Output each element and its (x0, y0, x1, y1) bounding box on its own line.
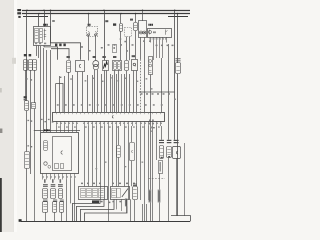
wire bracket b4 (85, 199, 128, 221)
wire x121.8 down (121, 74, 123, 112)
wire ecu x149 down (148, 126, 150, 200)
wire feed right x177.5 (177, 14, 179, 64)
node label 45 (105, 20, 108, 22)
wire feed right x174.7 (174, 10, 176, 140)
vertical label TC3 right (158, 190, 161, 203)
gauge dial a (140, 31, 143, 34)
wire x101.2 down (101, 74, 103, 112)
wire M1 pin b down (97, 70, 99, 112)
wire distributor down (150, 75, 152, 222)
instrument cluster box (139, 21, 147, 38)
page edge crease line (13, 0, 15, 232)
inline connector box mid top (113, 45, 117, 53)
wire relay 84 terminal a down (88, 36, 90, 61)
wire ecu x88 to fuse box (88, 126, 90, 186)
connector bracket C6 (131, 126, 133, 142)
coil cap marks c (174, 140, 179, 141)
relay small box mid-left (32, 103, 36, 109)
wire ecu x141 down (140, 126, 142, 200)
supply rail 15 (22, 13, 190, 15)
wire feed x104 (104, 10, 106, 60)
connector pill P1 label (24, 54, 27, 56)
lion emblem box (103, 61, 109, 71)
scan smudge left margin (12, 58, 16, 64)
sensor pill S3 (133, 187, 138, 200)
sensor box 9 label (132, 55, 135, 57)
lion emblem label (102, 56, 105, 58)
wire x47 down (46, 50, 48, 132)
wire x135 bottom stub (134, 200, 136, 222)
injector cap a1 (43, 184, 48, 185)
wire feed x39 into switch 830 (38, 14, 40, 27)
wire x159.9 bottom (159, 173, 161, 221)
wire ecu x118.7 pill (118, 126, 120, 145)
wire 831 pin x156.6 down (156, 43, 158, 59)
connector pill P6 (125, 61, 129, 71)
wire 831 pin x153.5 down (153, 43, 155, 61)
throttle potentiometer lever (122, 189, 128, 198)
wire double connector pin b down (118, 70, 120, 112)
wire ecu x136 down (136, 126, 138, 186)
connector pill P1 (24, 60, 28, 71)
wire x92 down (92, 75, 94, 112)
label box below coil A (159, 161, 163, 174)
ignition switch 830 internal contact bar B (40, 29, 43, 43)
wire ecu x108 down (108, 126, 110, 221)
831 internal lamp symbol (148, 31, 151, 34)
wire ecu x128 down (128, 126, 130, 199)
wire ecu x100 to fuse box (100, 126, 102, 199)
wire 831 pin x162.9 down (162, 43, 164, 59)
wire ecu x145 down (144, 126, 146, 221)
extra specks near relay wires (81, 46, 83, 48)
wire dashed lambda x140.6 (140, 59, 142, 112)
wire sensor pill down (177, 74, 179, 216)
injector labels row (44, 179, 46, 183)
connector pill P7 (25, 101, 29, 111)
wire P1 down (25, 70, 27, 101)
fuse F1 label (113, 23, 116, 25)
rail label 30 (17, 9, 21, 11)
specks under boxes (101, 201, 103, 203)
wire fuse F1 down (120, 31, 122, 60)
labels inside fuse boxes bottom (112, 201, 114, 203)
ignition switch 830 pin labels (35, 43, 37, 45)
coil pill B (167, 147, 172, 158)
wire idle valve down (176, 158, 178, 215)
wire ecu x92 to fuse box (92, 126, 94, 186)
wire 8300 x71 to bottom (70, 180, 72, 204)
wire relay mid pin a down (126, 37, 128, 61)
wire label tick x30 (30, 120, 32, 121)
ECU bottom second label row (58, 126, 60, 127)
double connector label (113, 56, 116, 58)
injector cap a2 (51, 184, 56, 185)
wire injector b1 stub (45, 212, 47, 221)
scan tick mark left edge (0, 129, 2, 134)
distributor pillar (149, 57, 153, 75)
connector pill P3 (33, 60, 37, 71)
injector cap b2 (53, 199, 57, 202)
fuse cell 2 (87, 189, 92, 198)
wire coil B down (168, 158, 170, 199)
tick labels on feed wires (41, 119, 43, 120)
pill P4 label (67, 56, 70, 58)
sensor pill S3 cap (133, 183, 137, 186)
vertical label TC3 left (148, 190, 151, 203)
wire C5 pin a down (77, 72, 79, 112)
coil pill nubs (161, 157, 163, 159)
wire 8300 x67 to bottom (66, 180, 68, 222)
wire x161 down (161, 58, 163, 112)
coil pill A (160, 146, 164, 159)
wire injector b2 stub (54, 212, 56, 221)
relay 84 dashed housing (87, 27, 98, 37)
wire x34.5 to bottom (34, 130, 36, 221)
earth rail bottom (21, 221, 190, 223)
ignition switch 830 label (43, 24, 44, 26)
wire from 830 pin down x39 (38, 46, 40, 59)
left column tick labels (27, 120, 29, 121)
wire lion box pin b down (106, 70, 108, 112)
unit 8300 inner pill (44, 141, 48, 151)
wire bend y83.5 (56, 84, 63, 113)
wire x142.4 bottom (142, 204, 144, 221)
relay 84 label (88, 24, 89, 26)
ECU top edge pin stubs (56, 112, 58, 114)
wire gauge a down (140, 37, 142, 59)
wire feed x121 (120, 14, 122, 24)
831 internal text 78 (153, 31, 154, 33)
wire P7 down (26, 111, 28, 152)
wire sensor9 pin b down (136, 71, 138, 112)
sensor pill right top (176, 63, 181, 74)
fuse box 870 labels above (81, 183, 83, 185)
wire bracket b1 (73, 199, 101, 221)
wire x124 down (124, 74, 126, 112)
injector pill a2 (51, 189, 56, 199)
wire x51 down (50, 50, 52, 132)
wire double connector pin a down (114, 70, 116, 112)
wire labels mid-low area (105, 162, 107, 163)
control unit 831 label (148, 24, 149, 26)
label 8706 (92, 200, 99, 203)
wire x34 small box down (34, 109, 36, 131)
supply rail 50 right segment (168, 16, 188, 18)
wire bracket b3 (81, 199, 115, 221)
scan dark strip bottom-left edge (0, 178, 2, 232)
unit 8300 inner block b (61, 164, 64, 169)
injector pill a1 (43, 189, 48, 199)
wire x55.7 down (55, 84, 57, 113)
wire from 830 bottom bend to x57 (44, 46, 58, 60)
throttle box hatch cell (112, 189, 117, 198)
wire bend y92 collector (139, 91, 175, 93)
wire x130.3 bottom (130, 199, 132, 221)
unit 8300 pin labels below (42, 174, 44, 180)
wire injector b3 stub (61, 212, 63, 221)
sensor pill cap marks (175, 57, 180, 60)
wire from rail30 x51 bend to node x80 (51, 10, 81, 60)
rail label 50 (18, 16, 20, 18)
sensor box 9 (132, 60, 138, 71)
wire M1 pin a down (94, 70, 96, 112)
wire ecu pins into box 8300 (56, 126, 58, 132)
fuse cell 4 (99, 189, 105, 198)
wire P3 down (34, 70, 36, 103)
wire x59.2 down (59, 76, 61, 112)
wire 831 pin x159.8 down (159, 43, 161, 59)
motor M1 (93, 61, 99, 67)
supply rail 30 (22, 10, 190, 12)
unit 8300 inner block a (55, 164, 59, 169)
wire ecu x157 down (156, 126, 158, 160)
wire sensor9 pin a down (133, 71, 135, 112)
coil cap marks a (159, 140, 164, 141)
pill P7 label (24, 96, 27, 98)
unit 8300 inner contact a (44, 162, 47, 165)
ECU pin top labels (57, 104, 59, 106)
double connector box (113, 61, 122, 71)
wire 8300 x75 to bottom (74, 180, 76, 222)
wire ecu x116 down (116, 126, 118, 186)
wire x168.5 bottom (168, 199, 170, 221)
wire ecu x104 to bracket (104, 126, 106, 199)
wire P4 down (68, 72, 70, 112)
wire P6 down (126, 71, 128, 112)
wire P1 stub labels (26, 78, 28, 79)
injector cap a3 (58, 184, 63, 185)
wire x73 down (72, 75, 74, 112)
wire C5 pin b down (82, 72, 84, 112)
wire ecu x84 to bottom (84, 126, 86, 186)
connector pill P2 (29, 60, 33, 71)
fuse cell 3 (93, 189, 98, 198)
wire x112 down (112, 75, 114, 112)
injector cap b3 (60, 199, 64, 202)
switch box C5 (76, 61, 85, 72)
wire from 830 bend to pill x69 (51, 49, 69, 60)
injector pill b2 (53, 202, 57, 213)
wire ecu x161.5 low (161, 126, 163, 140)
wire x110.8 down (110, 74, 112, 112)
wire gauge b down (144, 37, 146, 75)
wire feed x135.5 (135, 14, 137, 23)
injector cap b1 (43, 199, 48, 202)
relay 84 contact terminal a (88, 34, 90, 36)
wire ecu x124 down (124, 126, 126, 186)
wire feed x44 into switch 830 (44, 10, 46, 26)
unit 8300 label (44, 129, 45, 131)
page background (0, 0, 200, 232)
throttle box 871 (111, 187, 130, 200)
page left margin (0, 0, 13, 232)
labels under y92 wire (141, 93, 143, 95)
fuse pill F2 (134, 23, 138, 31)
rail label 15 (17, 12, 21, 14)
wire pill left to bottom (26, 168, 28, 221)
ECU internal label (112, 116, 113, 119)
misc label specks above middle component row (108, 44, 110, 46)
injector pill a3 (59, 189, 63, 199)
ECU right pin cluster labels (149, 120, 151, 121)
ECU bottom pin labels (56, 122, 58, 127)
dashed service wire (149, 178, 165, 180)
ignition switch 830 box (34, 27, 51, 46)
label pill vertical 0805 (117, 146, 121, 158)
wire bottom right collector (171, 216, 191, 222)
misc tick labels on harness wires (70, 78, 72, 79)
wire x64.8 down (64, 76, 66, 112)
wire labels 41 41 41 (55, 44, 57, 47)
wire P2 down (30, 70, 32, 174)
unit 8300 inner contact b (48, 165, 51, 168)
wire ecu x153 down (152, 126, 154, 221)
wire x184.8 right (184, 143, 186, 216)
wire ecu x96 to fuse box (96, 126, 98, 186)
fuse pill F1 (120, 24, 123, 32)
unit 8300 box (41, 133, 79, 174)
connector pill P4 (67, 61, 71, 73)
wire feed x142.5 (142, 10, 144, 21)
wire right x169 (168, 44, 170, 140)
coil cap marks b (167, 140, 172, 141)
wire x43 down (43, 48, 45, 132)
gauge dial b (143, 31, 146, 34)
wire bracket b2 (77, 199, 105, 221)
fuse F2 label (130, 19, 133, 21)
wire x145 down (144, 75, 146, 112)
ignition switch 830 internal contact bar (35, 29, 39, 43)
ECU main box (53, 113, 165, 122)
connector pill P2 label (29, 54, 32, 56)
wire x40 down (40, 46, 42, 132)
wire ecu x112 to switch box (112, 126, 114, 186)
wire x87.2 down (87, 75, 89, 112)
injector pill b3 (60, 202, 64, 213)
fuse box 870 (79, 187, 108, 200)
scan faint tick left edge (0, 88, 2, 93)
831 internal switch glyph (165, 30, 167, 35)
wire lion box pin a down (104, 70, 106, 112)
label pill vertical left (25, 152, 30, 169)
wire relay 84 terminal b down (95, 36, 97, 61)
831 pin stubs and labels (150, 37, 152, 42)
throttle box hatch cell 2 (117, 189, 121, 198)
stubs under throttle box (116, 199, 118, 209)
wire horizontal y130 (34, 130, 80, 132)
idle valve box C (173, 147, 181, 159)
relay housing dashed mid (125, 28, 132, 37)
wire from 830 pin down x36.5 (36, 46, 38, 57)
supply rail 50 left segment (23, 16, 48, 18)
injector pill b1 (43, 202, 48, 213)
fuse cell 1 (81, 189, 86, 198)
wire x129.5b down (129, 74, 131, 112)
ignition switch 830 internal resistor (44, 29, 46, 41)
unit 8300 inner module box (53, 137, 72, 171)
vertical label 103 a (125, 198, 128, 206)
wire x146 bottom (146, 204, 148, 221)
motor M1 label (93, 56, 96, 58)
relay 84 contact terminal b (95, 34, 97, 36)
wire x116.8 down (116, 74, 118, 112)
wire feed left column x27 (26, 10, 28, 101)
control unit 831 box (148, 29, 172, 38)
earth rail label (19, 219, 22, 222)
wire fuse F2 down (135, 31, 137, 60)
wire relay mid pin b down (129, 37, 131, 61)
